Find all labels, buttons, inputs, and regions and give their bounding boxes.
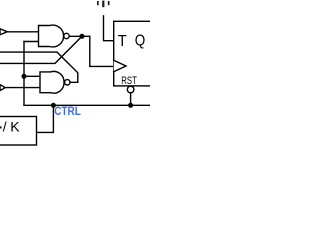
wire U1 output xyxy=(69,35,90,37)
U1 output bubble xyxy=(64,33,69,38)
svg-text:T: T xyxy=(118,33,128,50)
U2 output bubble xyxy=(65,80,70,85)
wire A2 to U2 lower input xyxy=(5,87,40,89)
U3 RST inversion bubble xyxy=(127,86,134,93)
wire U1 output to clock xyxy=(90,36,114,66)
U3 clock triangle xyxy=(114,60,126,71)
NAND gate U2 xyxy=(40,71,64,93)
wire A1 to NAND U1 input xyxy=(7,31,38,33)
svg-text:K: K xyxy=(10,118,20,134)
wire from '1' to T input xyxy=(104,16,114,41)
node on riser to U2 input xyxy=(22,74,27,79)
wire U1 lower input xyxy=(24,41,39,43)
svg-text:Q: Q xyxy=(135,33,146,50)
svg-text:/: / xyxy=(3,118,7,134)
svg-text:RST: RST xyxy=(121,75,137,87)
T flip-flop U3 box xyxy=(114,21,160,86)
NAND gate U1 xyxy=(39,25,64,47)
wire feedback diagonal from U1 node to left net xyxy=(0,36,82,63)
wire feedback diagonal from left net to U2 output xyxy=(0,52,78,82)
wire riser to U2 upper input xyxy=(24,75,40,77)
wire riser CTRL net xyxy=(23,42,25,106)
node RST on CTRL wire xyxy=(128,103,133,108)
node J/K branch on CTRL wire xyxy=(51,103,56,108)
svg-text:CTRL: CTRL xyxy=(54,104,81,118)
wire CTRL net horizontal xyxy=(24,104,150,106)
wire RST bubble to CTRL net xyxy=(130,93,132,106)
input arrow A2 (lower-left) xyxy=(0,85,5,91)
node U1 output junction xyxy=(80,34,85,39)
wire J/K box to CTRL net xyxy=(37,105,54,132)
input arrow A1 (top-left) xyxy=(0,29,7,35)
J/K input box xyxy=(0,117,37,146)
constant '1' label xyxy=(97,1,110,8)
J/K box label xyxy=(0,126,2,128)
